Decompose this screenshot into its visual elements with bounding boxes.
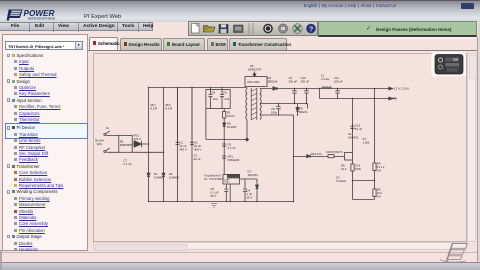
svg-text:SB5100: SB5100 [268,80,278,84]
svg-text:F1: F1 [106,126,110,130]
svg-text:50 V: 50 V [211,194,217,198]
svg-text:330 uF: 330 uF [289,80,298,84]
svg-text:2n2: 2n2 [225,97,230,101]
svg-text:3.3 uH: 3.3 uH [321,77,329,81]
svg-text:2n2: 2n2 [213,97,218,101]
svg-text:C9: C9 [223,91,227,95]
svg-text:U1B PC817A: U1B PC817A [326,150,343,154]
svg-text:2.2 nF: 2.2 nF [228,146,236,150]
svg-text:DL4937: DL4937 [227,125,237,129]
svg-text:2KBP06M: 2KBP06M [120,143,133,147]
svg-text:BAV21: BAV21 [299,110,308,114]
svg-text:P6KE200: P6KE200 [228,158,240,162]
svg-text:25 V: 25 V [247,196,253,200]
svg-text:1%: 1% [377,195,382,199]
svg-text:VAC: VAC [97,142,103,146]
svg-text:0.1 uF: 0.1 uF [124,162,132,166]
svg-text:RTN: RTN [392,96,398,100]
svg-text:8.5 R: 8.5 R [166,107,173,111]
svg-text:100n: 100n [271,110,278,114]
svg-text:U1: U1 [204,177,208,181]
svg-text:10 k: 10 k [341,167,347,171]
svg-text:275 V: 275 V [134,137,141,141]
svg-text:330 uF: 330 uF [301,80,310,84]
svg-text:R10 470: R10 470 [311,152,322,156]
svg-text:100 uF: 100 uF [334,80,343,84]
svg-text:TL431G: TL431G [336,179,346,183]
svg-text:400 V: 400 V [194,148,201,152]
svg-text:11DQ04: 11DQ04 [248,173,259,177]
svg-text:400 V: 400 V [180,148,187,152]
svg-text:22 uF: 22 uF [194,157,201,161]
svg-text:1N4007GP: 1N4007GP [248,67,262,71]
svg-text:8.5 R: 8.5 R [151,107,158,111]
svg-text:RZ1 200k: RZ1 200k [248,80,261,84]
svg-text:1N4005: 1N4005 [154,175,164,179]
svg-text:1%: 1% [377,169,382,173]
svg-text:1.00k: 1.00k [363,141,370,145]
svg-text:LMV431: LMV431 [348,136,359,140]
svg-text:10 uF: 10 uF [355,127,362,131]
svg-text:TNY276PG: TNY276PG [209,177,223,181]
svg-text:TNY276: TNY276 [228,174,239,178]
svg-text:100 R: 100 R [227,114,234,118]
svg-text:C8: C8 [212,91,216,95]
svg-text:100n: 100n [355,167,362,171]
svg-text:+ 12 V, 1.25 A: + 12 V, 1.25 A [392,86,410,90]
svg-text:1N4005: 1N4005 [169,175,179,179]
